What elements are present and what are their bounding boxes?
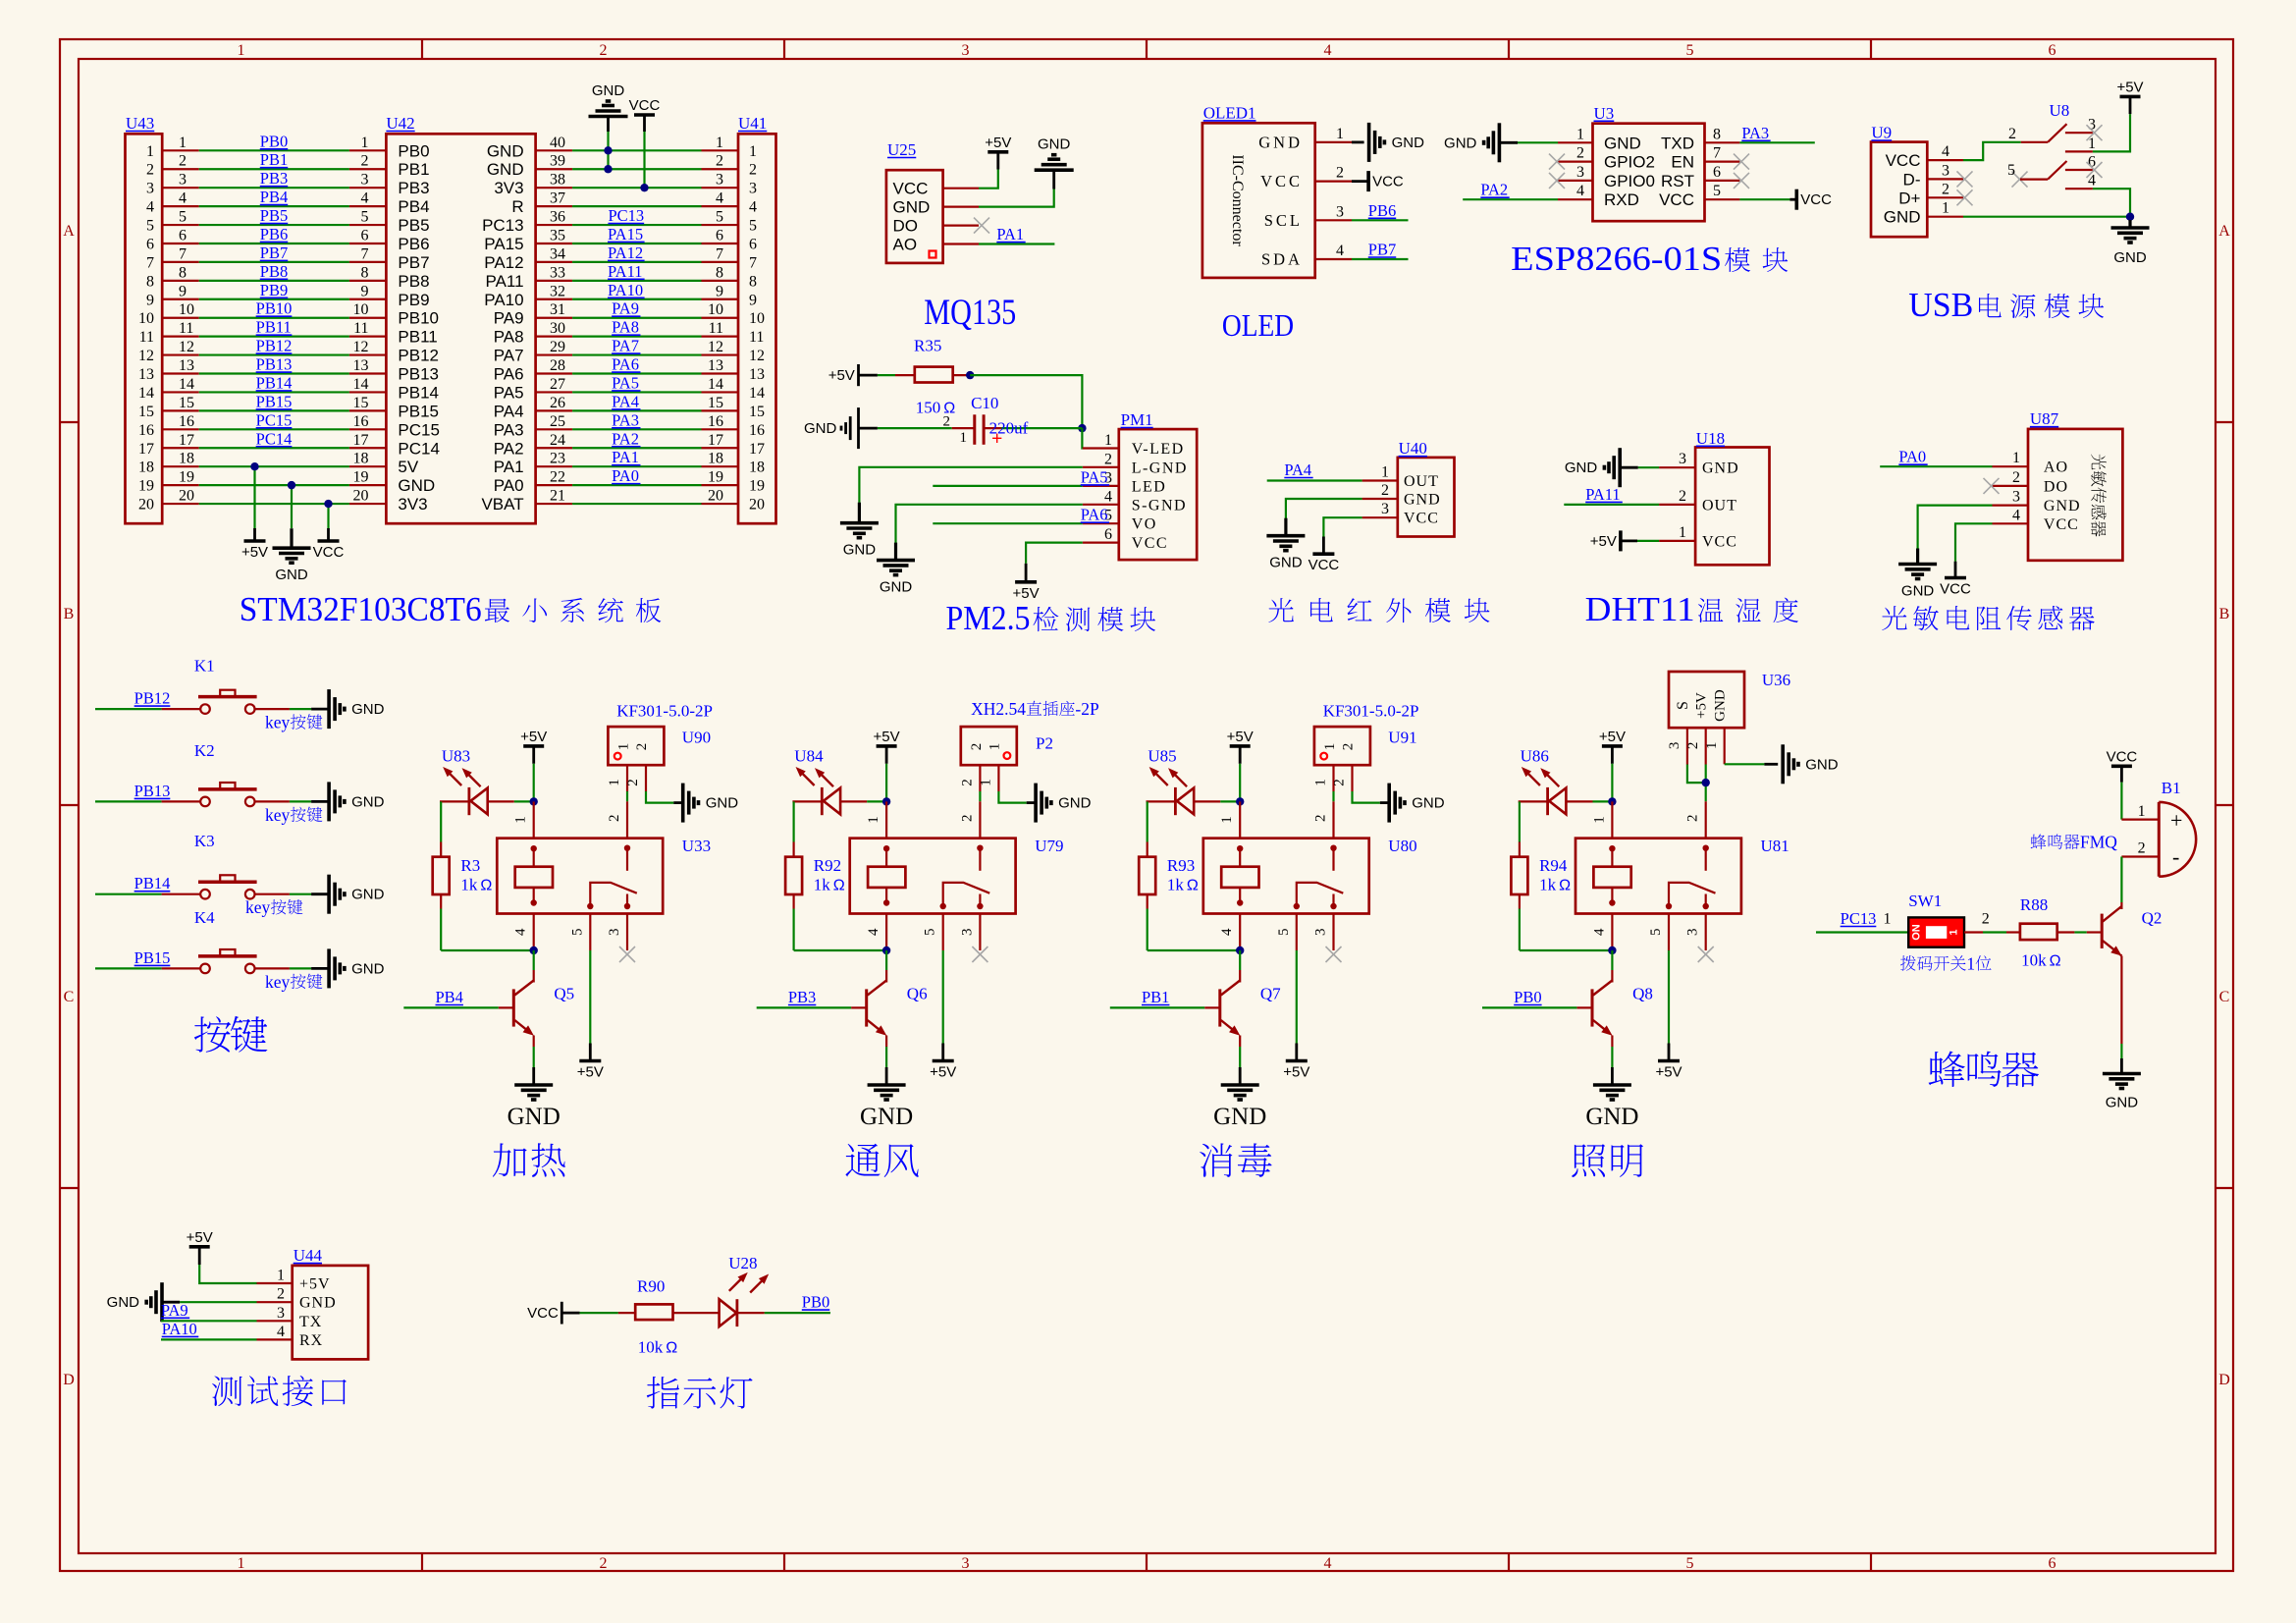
power +5V above U25 [988,150,1008,154]
svg-text:PB5: PB5 [398,216,429,235]
svg-text:GND: GND [1884,208,1921,227]
svg-text:R90: R90 [637,1276,665,1295]
svg-text:4: 4 [2012,507,2020,523]
svg-text:16: 16 [353,413,369,430]
svg-text:key: key [265,972,291,992]
svg-text:VCC: VCC [1260,172,1303,190]
svg-text:4: 4 [277,1324,285,1340]
svg-text:VCC: VCC [313,544,345,561]
svg-text:1: 1 [2012,450,2020,466]
transistor Q7 [1110,950,1281,1047]
LED U86 [1519,747,1613,816]
wire Q2 emitter to ground [2120,956,2122,1074]
svg-text:PA10: PA10 [484,291,523,309]
svg-text:1: 1 [1966,953,1975,973]
svg-text:PB10: PB10 [256,299,293,318]
svg-text:SCL: SCL [1264,211,1303,230]
svg-text:1: 1 [1219,816,1235,824]
svg-text:7: 7 [749,254,757,271]
svg-text:10: 10 [179,301,194,318]
wire U42 pin23 to U41 pin18 [536,448,738,467]
svg-text:PM2.5: PM2.5 [946,599,1031,637]
svg-text:PA11: PA11 [1585,485,1620,504]
wire U40 pin2 to ground [1286,482,1398,518]
wire U43 pin18 to U42 pin18 [162,451,386,467]
U87 vertical name text [2091,455,2106,470]
svg-text:PA0: PA0 [612,466,639,485]
svg-text:3: 3 [716,172,723,189]
svg-text:key: key [265,805,291,825]
junction LED anode +5V [882,797,890,805]
svg-text:6: 6 [1104,526,1112,543]
svg-text:1: 1 [616,743,632,751]
svg-text:2: 2 [1685,742,1701,750]
svg-text:PA1: PA1 [996,225,1024,243]
svg-text:27: 27 [550,376,565,393]
svg-text:5: 5 [179,209,187,226]
wire U42 pin31 to U41 pin10 [536,299,738,319]
svg-text:SW1: SW1 [1908,892,1942,910]
svg-text:GND: GND [1412,795,1445,812]
svg-text:PB12: PB12 [398,347,439,365]
wire U43 pin7 to U42 pin7 [162,243,386,263]
svg-text:PB13: PB13 [256,355,293,374]
svg-text:VCC: VCC [2107,748,2138,765]
svg-text:PB11: PB11 [398,328,437,347]
svg-text:17: 17 [708,432,723,449]
svg-text:+5V: +5V [1694,692,1710,719]
svg-text:U79: U79 [1035,837,1063,855]
junction LED anode +5V [1608,797,1616,805]
svg-text:ON: ON [1911,924,1923,941]
wire U3 pin1 GND to ground [1499,126,1592,142]
svg-text:10: 10 [708,301,723,318]
wire U42 pin40 to U41 pin1 [536,135,738,151]
svg-text:18: 18 [179,451,194,467]
wire U43 pin5 to U42 pin5 [162,206,386,226]
svg-text:GND: GND [804,420,837,437]
svg-text:150: 150 [916,399,941,417]
relay U81 pin4 stub [1591,914,1612,951]
U25 pin ERC marker [930,251,936,258]
svg-text:GPIO0: GPIO0 [1604,172,1655,190]
svg-text:4: 4 [1104,488,1112,505]
power VCC at U42 pin20 [313,504,345,561]
svg-text:3: 3 [277,1305,285,1322]
svg-text:4: 4 [1219,928,1235,936]
svg-text:1: 1 [2138,803,2146,820]
wire U42 pin34 to U41 pin7 [536,243,738,263]
svg-text:15: 15 [138,404,154,420]
svg-text:PA6: PA6 [494,365,524,384]
svg-text:LED: LED [1132,478,1167,495]
svg-text:U36: U36 [1762,671,1790,689]
svg-text:PA6: PA6 [1081,506,1108,524]
transistor Q8 [1482,950,1653,1047]
svg-text:8: 8 [716,264,723,281]
svg-text:PA0: PA0 [494,476,524,495]
title DHT11 temperature humidity [1585,590,1798,628]
title photoelectric IR module [1268,598,1294,622]
svg-text:RX: RX [299,1332,323,1349]
LED U85 [1147,747,1241,816]
svg-text:PB0: PB0 [1514,988,1541,1006]
svg-text:VCC: VCC [1702,533,1737,550]
svg-text:PA4: PA4 [612,392,639,410]
svg-text:PA2: PA2 [1480,181,1508,199]
wire OLED1 pin1 to ground [1315,126,1364,142]
svg-text:Ω: Ω [1187,878,1199,894]
title USB power module [1908,286,2104,324]
power ground left of U44 [160,1282,164,1322]
svg-text:VCC: VCC [1404,511,1439,527]
wire U42 pin27 to U41 pin14 [536,373,738,393]
wire Q7 emitter to ground [1239,1047,1241,1085]
svg-text:GND: GND [1392,135,1425,151]
svg-text:2: 2 [959,779,975,786]
svg-text:PA3: PA3 [494,420,524,439]
wire OLED1 pin3 net PB6 [1315,201,1409,221]
svg-text:-2P: -2P [1075,699,1099,719]
power +5V below relay U81 [1658,1059,1680,1063]
svg-text:7: 7 [179,245,187,262]
svg-text:R88: R88 [2020,895,2048,914]
wire connector right pin to ground [625,765,683,802]
relay U81 pin1 stub [1591,801,1612,838]
svg-text:B: B [64,606,75,622]
junction relay pin4 node [882,947,890,954]
relay U80 pin4 stub [1219,914,1240,951]
svg-text:PB1: PB1 [260,150,288,169]
svg-text:PA8: PA8 [494,328,524,347]
wire U42 pin28 to U41 pin13 [536,355,738,375]
svg-text:16: 16 [138,422,154,439]
svg-text:20: 20 [138,497,154,514]
wire connector left pin to relay pin2 [1313,765,1334,801]
svg-text:3: 3 [1679,451,1686,467]
svg-text:PB15: PB15 [398,402,439,420]
relay U33 [497,837,711,913]
svg-text:U86: U86 [1521,747,1549,766]
power +5V left of R35 [828,364,878,386]
svg-text:D: D [63,1372,75,1388]
svg-text:FMQ: FMQ [2080,833,2117,852]
module U87 photoresistor sensor [2028,409,2122,561]
svg-text:VCC: VCC [893,180,929,198]
svg-text:VCC: VCC [629,97,661,114]
connector OLED1 IIC [1202,103,1315,278]
wire U43 pin1 to U42 pin1 [162,132,386,151]
transistor Q6 [757,950,928,1047]
svg-text:GND: GND [107,1294,140,1311]
wire relay pin5 to +5V [589,950,591,1061]
svg-text:1: 1 [361,135,369,151]
junction at pin38 3V3 [640,184,648,191]
U3 pin2 no-connect [1549,145,1593,170]
svg-text:GND: GND [1038,136,1071,153]
wire U44 pin2 to ground [162,1301,293,1303]
svg-text:2: 2 [749,162,757,179]
svg-text:GND: GND [398,476,435,495]
svg-text:+5V: +5V [241,544,268,561]
svg-text:PA11: PA11 [486,272,524,291]
svg-text:PB4: PB4 [398,197,429,216]
title test port [212,1376,242,1406]
power VCC above buzzer [2107,748,2138,819]
label dip switch 1bit [1900,953,1991,973]
U25 pin DO no-connect [943,218,989,234]
relay U33 pin1 stub [513,801,534,838]
wire U28 to PB0 [737,1293,830,1314]
wire U43 pin20 to U42 pin20 [162,488,386,505]
relay U79 pin1 stub [866,801,886,838]
svg-text:GND: GND [351,793,385,810]
wire U42 pin25 to U41 pin16 [536,410,738,430]
svg-text:6: 6 [146,236,154,252]
wire U42 pin32 to U41 pin9 [536,281,738,300]
connector U90 KF301-5.0-2P [608,702,713,766]
wire U42 pin36 to U41 pin5 [536,206,738,226]
wire U43 pin15 to U42 pin15 [162,392,386,411]
svg-text:10: 10 [353,301,369,318]
svg-text:5: 5 [923,929,938,937]
svg-text:PB14: PB14 [398,383,439,402]
connector U9 USB [1871,124,1927,238]
svg-text:4: 4 [361,190,369,207]
svg-text:1: 1 [1679,524,1686,541]
svg-text:2: 2 [607,815,622,823]
svg-text:+5V: +5V [1599,729,1626,745]
svg-text:11: 11 [353,320,368,337]
svg-text:PB14: PB14 [256,373,293,392]
wire U42 pin30 to U41 pin11 [536,318,738,338]
junction GND bus [2126,213,2134,221]
svg-text:B1: B1 [2162,779,2181,797]
sensor U25 MQ135 [886,140,943,263]
svg-text:PC14: PC14 [256,429,293,448]
svg-text:-: - [2172,844,2179,869]
svg-text:1: 1 [238,1555,245,1572]
connector U36 [1669,671,1790,728]
svg-text:14: 14 [138,385,154,402]
svg-text:GND: GND [487,160,524,179]
svg-text:PB10: PB10 [398,309,439,328]
svg-text:4: 4 [513,928,529,936]
svg-text:1: 1 [1104,432,1112,449]
svg-text:U28: U28 [728,1254,757,1272]
wire U42 pin39 to U41 pin2 [536,153,738,170]
wire U43 pin2 to U42 pin2 [162,150,386,170]
title photoresistor sensor [1882,606,1907,630]
svg-text:5: 5 [1713,183,1721,199]
module U40 photoelectric IR [1398,439,1455,536]
svg-text:PB4: PB4 [260,188,288,206]
capacitor C10 220uf [878,394,1083,450]
svg-text:2: 2 [1313,815,1329,823]
svg-text:Ω: Ω [666,1340,677,1357]
junction relay pin4 node [1608,947,1616,954]
svg-text:4: 4 [179,190,187,207]
svg-text:24: 24 [550,432,565,449]
svg-text:1: 1 [1949,929,1960,935]
svg-text:8: 8 [179,264,187,281]
svg-text:+5V: +5V [520,729,547,745]
power ground right of K4 [327,948,331,988]
svg-text:USB: USB [1908,286,1973,324]
svg-text:XH2.54: XH2.54 [971,699,1026,719]
svg-text:GND: GND [1805,756,1839,773]
power +5V above relay U81 [1599,729,1626,802]
svg-text:3: 3 [1685,929,1701,937]
svg-text:PA12: PA12 [484,253,523,272]
wire U8 pin4 to GND bus [2093,189,2130,217]
svg-text:1: 1 [979,779,994,786]
svg-text:GPIO2: GPIO2 [1604,153,1655,172]
junction at pin18 [250,462,258,470]
svg-text:PC13: PC13 [482,216,524,235]
svg-text:VCC: VCC [1940,581,1971,598]
title 加热 [493,1143,527,1176]
relay U79 pin5 stub [923,914,943,951]
svg-text:PA9: PA9 [161,1301,188,1320]
svg-text:+5V: +5V [874,729,900,745]
svg-text:PB0: PB0 [398,141,429,160]
svg-text:MQ135: MQ135 [924,293,1016,333]
wire R35 to PM1 pin1 [970,375,1082,428]
wire U43 pin10 to U42 pin10 [162,299,386,319]
wire PM1 pin2 L-GND to ground [859,467,1118,503]
svg-text:U83: U83 [442,747,470,766]
svg-text:Ω: Ω [833,878,845,894]
svg-text:37: 37 [550,190,565,207]
wire U43 pin9 to U42 pin9 [162,281,386,300]
svg-text:U41: U41 [738,114,767,133]
svg-text:PA1: PA1 [612,448,639,466]
svg-text:2: 2 [1381,482,1389,499]
wire U42 pin37 to U41 pin4 [536,190,738,207]
svg-text:U91: U91 [1388,729,1416,747]
svg-text:1: 1 [960,430,968,446]
wire U18 pin1 to +5V [1621,524,1695,541]
svg-text:Q2: Q2 [2142,909,2163,928]
power +5V top right [2120,95,2141,99]
svg-text:14: 14 [749,385,765,402]
power ground below U40 [1284,518,1287,536]
svg-text:2: 2 [943,413,951,429]
svg-text:ESP8266-01S: ESP8266-01S [1511,240,1722,278]
svg-text:5: 5 [716,209,723,226]
svg-text:6: 6 [179,227,187,243]
resistor R93 1k [1139,801,1240,950]
svg-text:15: 15 [353,395,369,411]
wire U40 pin3 to VCC [1323,501,1397,554]
svg-text:+5V: +5V [577,1064,604,1081]
svg-text:1k: 1k [460,876,478,894]
svg-text:GND: GND [351,701,385,718]
power ground right of U36 [1781,744,1785,784]
relay U33 pin2 stub [607,801,627,839]
svg-text:2: 2 [1982,911,1990,928]
U9 pin2 D+ no-connect [1927,181,1972,205]
svg-text:8: 8 [361,264,369,281]
svg-text:1: 1 [866,816,881,824]
svg-text:2: 2 [2138,840,2146,857]
IC U42 STM32F103C8T6 [386,114,535,523]
svg-text:30: 30 [550,320,565,337]
svg-text:1k: 1k [814,876,831,894]
svg-text:R94: R94 [1539,856,1568,875]
relay U33 pin5 stub [569,914,590,951]
label key of K3 [245,897,302,917]
svg-text:2: 2 [1341,743,1357,751]
svg-text:13: 13 [138,366,154,383]
svg-text:2: 2 [361,153,369,170]
svg-text:PA12: PA12 [608,243,643,262]
push button K4 [95,908,329,973]
svg-text:PB7: PB7 [1368,241,1396,259]
wire Q8 emitter to ground [1611,1047,1613,1085]
relay U80 pin2 stub [1313,801,1334,839]
power ground right of connector [1387,784,1391,823]
wire B1 pin2 to Q2 collector [2121,840,2159,909]
wire U43 pin12 to U42 pin12 [162,337,386,356]
power ground above U25 [1035,168,1074,172]
svg-text:DO: DO [893,217,919,236]
junction relay pin4 node [1236,947,1244,954]
wire U3 pin4 net PA2 [1463,181,1592,200]
junction LED anode +5V [530,797,538,805]
wire U43 pin8 to U42 pin8 [162,262,386,282]
svg-text:GND: GND [880,578,913,595]
svg-text:R93: R93 [1167,856,1195,875]
svg-text:+5V: +5V [985,135,1011,151]
svg-text:U9: U9 [1871,124,1892,142]
svg-text:3: 3 [1576,164,1584,181]
svg-text:GND: GND [275,567,308,583]
svg-text:16: 16 [749,422,765,439]
svg-text:4: 4 [1942,143,1949,160]
wire OLED1 pin4 net PB7 [1315,241,1409,260]
module PM1 PM2.5 sensor [1104,410,1197,560]
svg-text:2: 2 [600,42,608,59]
svg-text:GND: GND [1604,134,1641,152]
svg-text:A: A [2218,223,2230,240]
svg-text:2: 2 [600,1555,608,1572]
svg-text:4: 4 [716,190,723,207]
svg-text:PB5: PB5 [260,206,288,225]
svg-text:2: 2 [969,743,985,751]
relay U33 pin4 stub [513,914,534,951]
svg-text:A: A [63,223,75,240]
svg-text:PB15: PB15 [134,948,171,967]
svg-text:+5V: +5V [1283,1064,1309,1081]
svg-text:2: 2 [2012,469,2020,486]
svg-text:4: 4 [1324,42,1332,59]
power ground right of K1 [327,689,331,729]
wire U18 pin2 net PA11 [1564,485,1695,505]
U9 pin3 D- no-connect [1927,162,1972,187]
svg-text:PA9: PA9 [612,299,639,318]
svg-text:PA11: PA11 [608,262,642,281]
svg-text:PA7: PA7 [494,347,524,365]
svg-text:1: 1 [987,743,1002,751]
svg-text:R35: R35 [914,336,941,354]
svg-text:GND: GND [843,542,877,559]
svg-text:PB11: PB11 [256,318,292,337]
title keys [194,1016,231,1053]
svg-text:U80: U80 [1388,837,1416,855]
svg-text:U33: U33 [682,837,711,855]
